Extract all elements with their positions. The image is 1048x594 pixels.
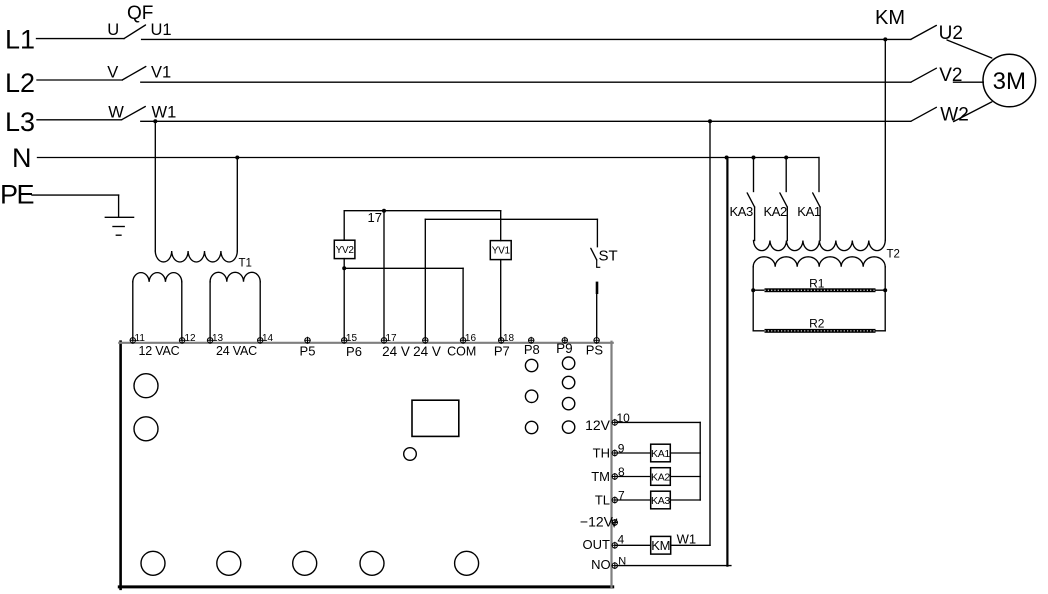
svg-text:OUT: OUT bbox=[583, 537, 611, 552]
board hole bbox=[141, 551, 165, 575]
relay coil KA2 bbox=[651, 468, 671, 486]
contactor KM pole W2 blade bbox=[911, 107, 937, 121]
wire YV2 top lead bbox=[343, 211, 345, 241]
svg-text:14: 14 bbox=[262, 333, 274, 344]
junction L3/T1 primary bbox=[153, 119, 157, 123]
svg-text:T2: T2 bbox=[887, 249, 900, 261]
wire V1 (L2 to KM) bbox=[141, 81, 911, 83]
contactor KM pole U2 blade bbox=[911, 25, 937, 39]
wire KA1 coil to riser bbox=[670, 452, 700, 454]
svg-text:L2: L2 bbox=[5, 68, 35, 98]
resistor R1 body bbox=[765, 288, 876, 292]
svg-text:−12V: −12V bbox=[580, 513, 614, 529]
svg-text:L1: L1 bbox=[5, 25, 35, 55]
wire KM tap down to T2 bbox=[884, 39, 886, 240]
svg-text:KM: KM bbox=[875, 7, 905, 29]
relay contact KA1 blade bbox=[813, 193, 820, 207]
contactor coil KM bbox=[651, 536, 671, 554]
junction N/KA3 bbox=[752, 156, 756, 160]
svg-text:W: W bbox=[108, 104, 124, 122]
wire TM to KA2 coil bbox=[615, 476, 651, 478]
terminal 14 bbox=[257, 337, 263, 344]
wire N bus bbox=[38, 157, 819, 159]
transformer T1 primary winding bbox=[155, 251, 237, 262]
svg-text:QF: QF bbox=[127, 3, 153, 24]
relay coil KA1 bbox=[651, 444, 671, 462]
svg-text:17: 17 bbox=[368, 210, 382, 225]
svg-text:P9: P9 bbox=[556, 341, 573, 356]
terminal 7 TL bbox=[612, 497, 618, 504]
board pad bbox=[525, 359, 537, 371]
wire KA1 upper lead bbox=[818, 158, 820, 192]
svg-text:24 VAC: 24 VAC bbox=[216, 344, 257, 358]
svg-text:P5: P5 bbox=[300, 343, 316, 358]
board pad bbox=[525, 421, 537, 433]
svg-text:11: 11 bbox=[135, 333, 146, 344]
svg-text:3M: 3M bbox=[993, 68, 1026, 95]
wire KA3 lower lead to T2 tap bbox=[754, 207, 756, 240]
terminal 13 bbox=[207, 337, 213, 344]
svg-text:U2: U2 bbox=[939, 23, 963, 44]
svg-text:KA3: KA3 bbox=[730, 204, 754, 219]
wire PE bbox=[32, 194, 119, 196]
wire link to COM bbox=[344, 267, 463, 269]
wire R1-R2 right leg bbox=[884, 290, 886, 331]
svg-text:PE: PE bbox=[0, 180, 34, 210]
breaker QF pole V blade bbox=[122, 67, 146, 81]
svg-text:NO: NO bbox=[591, 557, 611, 572]
board hole bbox=[134, 417, 158, 441]
svg-text:KA2: KA2 bbox=[651, 471, 670, 483]
wire T1 primary right leg bbox=[236, 158, 238, 252]
resistor R2 body bbox=[765, 329, 876, 333]
terminal P8 bbox=[528, 337, 534, 344]
svg-text:4: 4 bbox=[618, 533, 625, 547]
wire node17 drop to terminal 17 bbox=[383, 211, 385, 340]
wire drop to COM terminal bbox=[462, 268, 464, 340]
relay contact KA2 blade bbox=[780, 193, 787, 207]
wire W1 (L3 to KM) bbox=[141, 120, 911, 122]
wire OUT to KM coil bbox=[615, 544, 651, 546]
contactor KM pole V2 blade bbox=[911, 68, 937, 82]
svg-text:12V: 12V bbox=[585, 417, 611, 433]
wire W2 to motor bbox=[954, 102, 992, 122]
terminal 24V bbox=[422, 337, 428, 344]
svg-text:W1: W1 bbox=[152, 104, 177, 122]
svg-text:YV2: YV2 bbox=[336, 245, 355, 256]
relay contact KA3 blade bbox=[747, 193, 754, 207]
wire node 17 top bus bbox=[344, 210, 501, 212]
wire L1 left bbox=[37, 38, 125, 40]
terminal 12 bbox=[179, 337, 185, 344]
svg-text:18: 18 bbox=[503, 333, 515, 344]
junction KM tap on U1 bbox=[883, 37, 887, 41]
junction N/NO riser bbox=[725, 156, 729, 160]
wire TL to KA3 coil bbox=[615, 499, 651, 501]
svg-text:KA1: KA1 bbox=[651, 448, 670, 460]
terminal -12V bbox=[612, 519, 618, 526]
wire YV1 top lead bbox=[500, 211, 502, 241]
breaker QF pole W blade bbox=[122, 107, 146, 120]
wire NO to N riser bbox=[615, 565, 731, 567]
wire ST upper lead bbox=[596, 219, 598, 246]
wire KA2 lower lead to T2 tap bbox=[786, 207, 788, 240]
wire KA2 upper lead bbox=[785, 158, 787, 192]
svg-text:R2: R2 bbox=[809, 316, 825, 330]
relay coil KA3 bbox=[651, 491, 671, 509]
wire KA3 coil to riser bbox=[670, 499, 700, 501]
-12V arrow mark bbox=[612, 519, 617, 526]
board pad bbox=[404, 448, 417, 461]
svg-text:13: 13 bbox=[212, 333, 224, 344]
svg-text:15: 15 bbox=[346, 333, 358, 344]
svg-text:TH: TH bbox=[593, 445, 610, 460]
terminal 10 12V bbox=[612, 419, 618, 426]
svg-text:ST: ST bbox=[599, 248, 618, 265]
wire T1 primary left leg bbox=[154, 121, 156, 251]
svg-text:R1: R1 bbox=[809, 276, 825, 290]
board pad bbox=[562, 397, 574, 409]
svg-text:V2: V2 bbox=[939, 65, 962, 86]
solenoid valve YV1 bbox=[490, 241, 511, 260]
junction W1/OUT riser bbox=[708, 119, 712, 123]
svg-text:17: 17 bbox=[386, 333, 398, 344]
svg-text:KM: KM bbox=[651, 538, 670, 553]
terminal 18 P7 bbox=[498, 337, 504, 344]
wire KA3 upper lead bbox=[753, 158, 755, 192]
svg-text:T1: T1 bbox=[239, 258, 252, 270]
wire KA2 coil to riser bbox=[670, 476, 700, 478]
svg-text:P6: P6 bbox=[346, 344, 362, 359]
solenoid valve YV2 bbox=[334, 240, 355, 258]
board pad bbox=[562, 421, 574, 433]
wire 12V to riser bbox=[615, 421, 700, 423]
wire R1-R2 left leg bbox=[752, 290, 754, 331]
junction N/KA2 bbox=[784, 156, 788, 160]
wire OUT riser (W1) bbox=[709, 121, 711, 545]
board hole bbox=[455, 551, 479, 575]
ground symbol bbox=[105, 216, 133, 218]
transformer T2 secondary winding bbox=[752, 267, 754, 290]
svg-text:KA1: KA1 bbox=[797, 204, 821, 219]
svg-text:16: 16 bbox=[465, 333, 477, 344]
svg-text:V: V bbox=[107, 64, 118, 82]
terminal 11 bbox=[130, 337, 136, 344]
svg-text:COM: COM bbox=[447, 344, 476, 358]
wire TH to KA1 coil bbox=[615, 452, 651, 454]
board hole bbox=[217, 551, 241, 575]
wire KA1 lower lead to T2 tap bbox=[819, 207, 821, 240]
board pad bbox=[562, 357, 574, 369]
junction N/T1 primary bbox=[235, 156, 239, 160]
terminal P9 bbox=[562, 337, 568, 344]
junction YV2/COM link bbox=[342, 266, 346, 270]
switch ST actuator dash bbox=[596, 283, 599, 293]
motor 3M bbox=[983, 54, 1036, 107]
svg-text:12: 12 bbox=[185, 333, 197, 344]
terminal 15 P6 bbox=[341, 337, 347, 344]
terminal 9 TH bbox=[612, 450, 618, 457]
transformer T1 secondary winding 12VAC bbox=[132, 282, 134, 340]
breaker QF pole U blade bbox=[124, 25, 146, 39]
wire U2 to motor bbox=[947, 40, 992, 58]
svg-text:W2: W2 bbox=[940, 105, 969, 126]
svg-text:KA3: KA3 bbox=[651, 495, 670, 507]
wire ST lower lead to PS bbox=[596, 293, 598, 337]
junction R1 left bbox=[751, 288, 755, 292]
terminal 16 COM bbox=[460, 337, 466, 344]
transformer T1 secondary winding 24VAC bbox=[209, 282, 211, 340]
svg-text:PS: PS bbox=[586, 342, 604, 357]
wire U1 (L1 to KM) bbox=[142, 38, 911, 40]
svg-text:N: N bbox=[12, 143, 32, 173]
svg-text:12 VAC: 12 VAC bbox=[139, 344, 180, 358]
board hole bbox=[360, 551, 384, 575]
wire R2 rail bbox=[753, 330, 885, 332]
svg-text:TL: TL bbox=[595, 492, 610, 507]
transformer T2 primary winding bbox=[754, 241, 886, 251]
switch ST blade bbox=[591, 248, 597, 260]
wire V2 to motor bbox=[954, 81, 984, 83]
svg-text:24 V: 24 V bbox=[413, 344, 441, 359]
control board outline bbox=[119, 342, 122, 589]
svg-text:24 V: 24 V bbox=[382, 344, 410, 359]
svg-text:YV1: YV1 bbox=[492, 246, 511, 257]
svg-text:L3: L3 bbox=[5, 107, 35, 137]
svg-text:TM: TM bbox=[591, 469, 610, 484]
svg-text:V1: V1 bbox=[151, 64, 171, 82]
board pad bbox=[562, 376, 574, 388]
svg-text:U1: U1 bbox=[151, 21, 172, 39]
wire 24V bus to ST bbox=[425, 218, 597, 220]
board component outline (rect) bbox=[412, 400, 459, 436]
switch ST lower contact hook bbox=[597, 260, 600, 267]
wire 24V drop to terminal bbox=[424, 219, 426, 340]
wire KM coil to W1 riser bbox=[671, 544, 710, 546]
junction R1 right bbox=[883, 288, 887, 292]
board hole bbox=[134, 374, 158, 398]
terminal 17 24V bbox=[381, 337, 387, 344]
wire YV2 bottom lead to P6 bbox=[343, 259, 345, 340]
wire R1 rail bbox=[753, 289, 885, 291]
board pad bbox=[525, 390, 537, 402]
board hole bbox=[293, 551, 317, 575]
wire KA coil common riser bbox=[699, 422, 701, 500]
svg-text:P7: P7 bbox=[494, 343, 510, 358]
terminal 8 TM bbox=[612, 473, 618, 480]
junction node 17 bbox=[382, 209, 386, 213]
svg-text:P8: P8 bbox=[524, 342, 540, 357]
svg-text:KA2: KA2 bbox=[764, 204, 788, 219]
svg-text:W1: W1 bbox=[677, 532, 697, 547]
terminal P5 bbox=[304, 337, 310, 344]
wire PE drop bbox=[118, 195, 120, 217]
wire L2 left bbox=[37, 79, 122, 81]
terminal 4 OUT bbox=[612, 542, 618, 549]
wire YV1 bottom lead to P7 bbox=[500, 260, 502, 340]
terminal PS bbox=[593, 337, 599, 344]
terminal N NO bbox=[612, 562, 618, 569]
wire L3 left bbox=[37, 119, 122, 121]
svg-text:U: U bbox=[107, 21, 119, 39]
wire NO riser (N) bbox=[726, 158, 728, 566]
